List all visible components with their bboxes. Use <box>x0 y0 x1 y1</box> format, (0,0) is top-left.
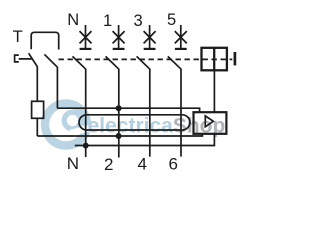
svg-text:3: 3 <box>134 12 143 30</box>
svg-text:4: 4 <box>138 155 147 174</box>
contact blade pole N <box>73 56 86 69</box>
svg-text:5: 5 <box>167 11 176 29</box>
contact blade pole 3 <box>137 56 150 69</box>
contact blade pole 5 <box>168 56 181 69</box>
svg-text:1: 1 <box>103 12 112 30</box>
test contact blade <box>29 53 38 66</box>
svg-text:N: N <box>67 11 79 29</box>
junction dot pole1/test tap <box>116 105 122 111</box>
terminal 3 <box>144 25 156 49</box>
pole N wire <box>85 69 87 157</box>
test button <box>15 55 32 62</box>
junction dot pole2/line1 <box>116 133 122 139</box>
anchor bar <box>234 52 237 65</box>
watermark logo e <box>45 104 94 146</box>
test contact lower wire <box>36 66 38 101</box>
test bus line1 to amplifier <box>37 134 202 136</box>
svg-text:N: N <box>67 154 79 173</box>
current transformer toroid <box>79 115 190 130</box>
trip relay divider <box>213 48 215 71</box>
svg-text:6: 6 <box>169 155 178 174</box>
amplifier triangle <box>205 116 213 127</box>
pole 5 wire <box>180 69 182 157</box>
resistor R <box>32 101 44 118</box>
wire relay to amplifier <box>213 70 215 112</box>
ganged test contact blade <box>44 54 57 67</box>
junction dot poleN/line2 <box>83 143 89 149</box>
trip relay box U1 <box>202 48 227 71</box>
pole 1 wire <box>118 69 120 158</box>
neutral bus line2 to amplifier <box>75 134 215 146</box>
svg-text:2: 2 <box>104 155 113 174</box>
pole 3 wire <box>149 69 151 157</box>
amplifier box U2 <box>194 112 227 134</box>
test circuit bracket wire <box>31 32 59 49</box>
mechanical linkage dashed line <box>59 58 233 60</box>
svg-text:T: T <box>13 28 23 46</box>
terminal N <box>80 25 92 49</box>
wire resistor to bottom bus <box>36 118 38 136</box>
terminal 5 <box>175 25 187 49</box>
test tap line to pole 1 and amplifier <box>57 108 199 112</box>
terminal 1 <box>113 25 125 49</box>
contact blade pole 1 <box>106 56 119 69</box>
ganged contact wire down <box>56 67 58 108</box>
